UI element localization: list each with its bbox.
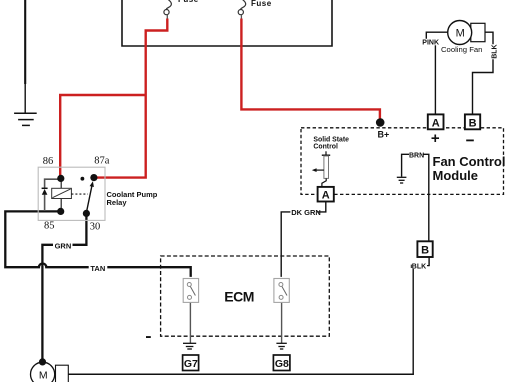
relay terminal 85 <box>57 208 64 215</box>
svg-text:ECM: ECM <box>224 288 254 304</box>
wire PINK: fan motor to module pin A <box>426 32 447 39</box>
ground (module internal) <box>397 177 407 183</box>
module pin B (upper) <box>465 114 480 129</box>
svg-text:BLK: BLK <box>492 44 499 58</box>
coolant pump motor connector rect <box>56 365 69 382</box>
svg-text:Cooling Fan: Cooling Fan <box>441 45 482 54</box>
transistor (solid state control) <box>312 151 330 187</box>
red wire fuse2 to B+ <box>241 19 380 121</box>
minus label <box>466 140 474 142</box>
node B+ <box>376 118 385 127</box>
svg-text:87a: 87a <box>94 155 110 166</box>
label DK GRN <box>290 208 317 216</box>
coolant pump relay box <box>38 167 105 220</box>
svg-text:BLK: BLK <box>412 264 426 271</box>
svg-text:A: A <box>322 190 330 202</box>
relay terminal 86 <box>57 175 64 182</box>
label TAN <box>89 263 108 271</box>
relay small pivot dot <box>81 177 85 181</box>
cooling fan motor M <box>448 21 472 45</box>
svg-text:G8: G8 <box>275 358 289 370</box>
module pin A (upper) <box>428 114 444 129</box>
coolant pump motor <box>30 362 54 382</box>
svg-text:M: M <box>456 28 465 40</box>
svg-text:G7: G7 <box>184 358 198 370</box>
wire relay85 to left elbow to TAN (with hop over GRN) <box>5 211 190 277</box>
relay coil leads <box>60 180 62 188</box>
ECM switch 1 lower lead <box>189 302 191 343</box>
wire BLK: fan motor to module pin B <box>485 32 493 44</box>
wire BLK to bottom <box>412 269 414 375</box>
svg-text:GRN: GRN <box>55 241 72 250</box>
svg-text:Control: Control <box>313 144 338 151</box>
G7 box <box>183 355 199 371</box>
svg-text:Fuse: Fuse <box>178 0 199 4</box>
svg-text:DK GRN: DK GRN <box>291 208 321 217</box>
G8 box <box>273 355 290 371</box>
svg-text:B: B <box>469 117 477 129</box>
dashed actuation link <box>71 193 88 195</box>
ECM switch 2 lower lead <box>281 302 283 343</box>
svg-text:Fuse: Fuse <box>251 0 272 8</box>
wire GRN: relay30 to coolant pump motor <box>42 213 86 362</box>
fuse box (top, cut off) <box>122 0 332 46</box>
harness pin B (lower) <box>417 241 432 257</box>
node at pump motor <box>39 358 46 365</box>
wire BRN to module ground <box>402 154 409 177</box>
svg-text:B+: B+ <box>378 129 390 139</box>
relay switch blade with arrow <box>86 186 92 213</box>
svg-text:85: 85 <box>44 221 55 232</box>
svg-text:+: + <box>431 130 440 147</box>
ECM switch 2 <box>274 279 289 303</box>
ground (top left) <box>14 0 37 125</box>
ECM switch 1 <box>183 279 198 303</box>
diode <box>42 187 48 189</box>
ECM dashed box <box>161 256 330 336</box>
fan control module dashed box <box>301 128 504 195</box>
svg-text:30: 30 <box>90 221 101 232</box>
red wire fuse1 to relay 87a <box>92 19 167 178</box>
fuse 1 <box>164 0 199 19</box>
relay terminal 87a <box>90 174 97 181</box>
svg-text:M: M <box>39 369 48 381</box>
red wire branch to relay 86 <box>60 95 146 178</box>
svg-text:Module: Module <box>433 168 479 183</box>
label GRN <box>53 241 73 249</box>
wire DK GRN: module A to ECM switch 2 <box>281 202 326 277</box>
svg-text:TAN: TAN <box>90 264 105 273</box>
module pin A (lower) <box>318 187 334 202</box>
svg-text:86: 86 <box>43 156 54 167</box>
svg-text:Solid State: Solid State <box>313 137 349 144</box>
relay terminal 30 <box>83 210 90 217</box>
cooling fan connector rect <box>471 23 485 41</box>
relay diode branch (gray) <box>45 179 61 188</box>
wire PINK lower segment <box>434 45 436 114</box>
wire BLK to module pin B <box>473 59 494 114</box>
stray minus mark <box>146 336 151 338</box>
svg-text:BRN: BRN <box>409 152 424 159</box>
ground G8 symbol <box>276 343 286 349</box>
svg-text:Fan Control: Fan Control <box>433 154 506 169</box>
svg-text:PINK: PINK <box>422 40 439 47</box>
svg-text:A: A <box>432 117 440 129</box>
wire BRN from module to pin B <box>423 154 429 241</box>
ground G7 symbol <box>183 343 196 349</box>
relay coil box <box>52 188 72 198</box>
bottom wire motor to BLK <box>68 373 414 375</box>
svg-text:Relay: Relay <box>107 198 128 207</box>
BLK stub below pin B <box>428 257 430 266</box>
svg-text:B: B <box>421 245 429 257</box>
fuse 2 <box>238 0 272 19</box>
